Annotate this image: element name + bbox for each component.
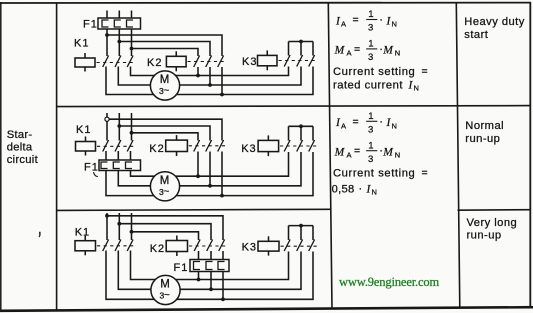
svg-text:1: 1 (368, 9, 373, 20)
svg-text:=: = (422, 167, 428, 179)
svg-text:K3: K3 (242, 242, 257, 254)
svg-text:A: A (347, 49, 352, 58)
svg-text:A: A (341, 121, 346, 130)
svg-text:F1: F1 (84, 162, 99, 174)
svg-text:3: 3 (368, 52, 373, 63)
svg-text:A: A (341, 20, 346, 29)
svg-text:M: M (382, 146, 394, 158)
svg-text:M: M (160, 74, 170, 86)
svg-text:1: 1 (368, 39, 373, 50)
svg-text:Normal: Normal (465, 120, 504, 132)
svg-text:1: 1 (368, 140, 373, 151)
svg-text:Current setting: Current setting (333, 66, 415, 78)
svg-text:·: · (379, 14, 383, 26)
svg-text:M: M (160, 279, 170, 291)
svg-text:N: N (392, 20, 397, 29)
svg-text:run-up: run-up (467, 230, 502, 242)
svg-text:~: ~ (164, 290, 170, 301)
svg-text:F1: F1 (83, 19, 98, 31)
svg-text:~: ~ (164, 86, 170, 97)
svg-text:A: A (347, 150, 352, 159)
svg-text:F1: F1 (174, 262, 189, 274)
svg-text:Heavy duty: Heavy duty (464, 16, 524, 28)
svg-text:~: ~ (164, 186, 170, 197)
svg-text:K2: K2 (149, 143, 164, 155)
svg-text:Very long: Very long (467, 217, 518, 229)
svg-text:K3: K3 (241, 143, 256, 155)
svg-text:Star-: Star- (7, 129, 33, 141)
svg-text:3: 3 (368, 23, 373, 34)
svg-text:N: N (395, 150, 400, 159)
svg-text:K3: K3 (242, 56, 257, 68)
svg-text:K2: K2 (147, 57, 162, 69)
svg-text:N: N (392, 121, 397, 130)
svg-text:run-up: run-up (465, 133, 500, 145)
svg-text:3: 3 (368, 124, 373, 135)
svg-text:=: = (353, 14, 359, 26)
svg-text:N: N (372, 188, 377, 197)
svg-text:M: M (160, 175, 170, 187)
svg-text:M: M (382, 45, 394, 57)
svg-text:M: M (334, 146, 346, 158)
svg-text:delta: delta (7, 141, 33, 153)
svg-text:=: = (354, 43, 360, 55)
svg-text:0,58: 0,58 (332, 184, 355, 196)
svg-text:3: 3 (368, 154, 373, 165)
svg-text:·: · (359, 183, 363, 195)
svg-text:K1: K1 (75, 227, 90, 239)
svg-text:Current setting: Current setting (333, 168, 415, 180)
svg-text:=: = (353, 116, 359, 128)
svg-text:start: start (464, 29, 488, 41)
svg-text:www.9engineer.com: www.9engineer.com (339, 275, 440, 289)
svg-text:1: 1 (368, 111, 373, 122)
svg-text:K2: K2 (150, 243, 165, 255)
svg-text:circuit: circuit (7, 154, 39, 166)
svg-text:=: = (354, 145, 360, 157)
svg-text:=: = (422, 65, 428, 77)
svg-text:rated current: rated current (333, 80, 403, 92)
svg-text:·: · (379, 116, 383, 128)
svg-text:N: N (395, 49, 400, 58)
svg-text:N: N (414, 84, 419, 93)
svg-text:M: M (334, 45, 346, 57)
svg-text:K1: K1 (74, 38, 89, 50)
svg-text:K1: K1 (76, 124, 91, 136)
